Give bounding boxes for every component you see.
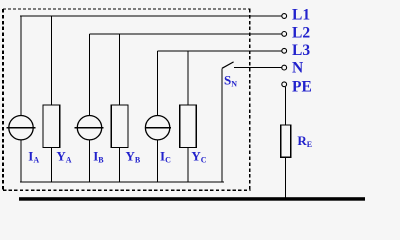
wire PE drop to RE [284,87,286,125]
wire RE to earth [284,157,286,197]
svg-text:N: N [292,59,303,76]
terminal N [282,65,287,70]
wire IB top drop [89,34,91,116]
terminal L3 [282,48,287,53]
admittance YB [111,105,128,148]
switch SN blade (open) [222,62,234,68]
dashed enclosure box left edge [2,9,4,190]
earth bar (ground) [19,197,365,201]
svg-text:L3: L3 [292,42,310,59]
wire IC bottom drop [157,140,159,182]
wire YC top drop [187,51,189,105]
svg-text:L2: L2 [292,25,310,42]
wire IA top drop [20,16,22,116]
resistor RE [281,125,291,157]
admittance YA [43,105,60,148]
wire YA top drop [50,16,52,105]
wire L3 bus [158,50,282,52]
svg-text:L1: L1 [292,7,310,24]
wire bottom bus (star point) [20,181,224,183]
terminal PE [282,82,287,87]
switch SN vertical wire [221,68,223,182]
terminal L1 [282,14,287,19]
current source IB [75,116,104,140]
wire YA bottom drop [50,148,52,182]
wire IC top drop [157,51,159,116]
svg-text:PE: PE [292,79,312,96]
dashed enclosure box right edge [249,9,251,190]
wire IB bottom drop [89,140,91,182]
terminal L2 [282,32,287,37]
wire YB bottom drop [119,148,121,182]
wire L1 bus [20,15,282,17]
wire L2 bus [90,33,282,35]
wire YC bottom drop [187,148,189,182]
wire IA bottom drop [20,140,22,182]
current source IC [145,116,171,140]
admittance YC [180,105,197,148]
dashed enclosure box bottom edge [3,189,250,191]
wire N line [234,67,282,69]
dashed enclosure box top edge (source network boundary) [3,8,250,10]
wire YB top drop [119,34,121,105]
current source IA [7,116,36,140]
